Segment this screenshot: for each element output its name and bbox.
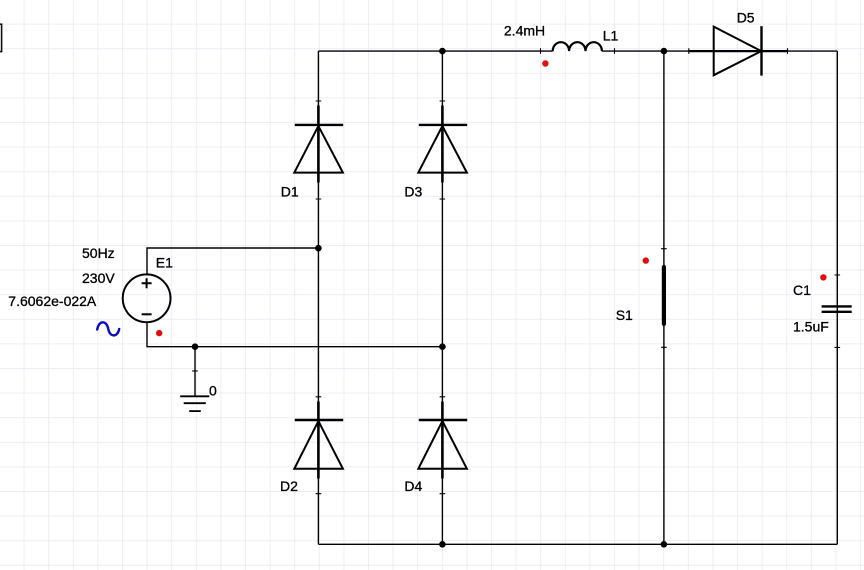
svg-text:7.6062e-022A: 7.6062e-022A <box>8 293 97 309</box>
svg-text:D3: D3 <box>404 184 422 200</box>
wire switch column <box>663 51 665 544</box>
node junction bottom D4 <box>439 541 446 548</box>
wire middle bridge column <box>441 51 443 544</box>
ground <box>180 371 209 411</box>
node junction E1 bottom <box>439 343 446 350</box>
voltage source E1 <box>123 274 171 322</box>
svg-text:50Hz: 50Hz <box>82 245 115 261</box>
svg-text:D4: D4 <box>404 478 422 494</box>
diode D4 <box>418 397 467 494</box>
probe dot near C1 <box>820 274 826 280</box>
svg-text:D1: D1 <box>281 184 299 200</box>
svg-text:1.5uF: 1.5uF <box>793 319 829 335</box>
diode D3 <box>418 101 467 199</box>
inductor L1 <box>541 42 615 54</box>
wire left bridge column <box>317 51 319 544</box>
switch S1 <box>661 249 667 348</box>
svg-text:0: 0 <box>209 383 217 399</box>
svg-text:S1: S1 <box>616 307 633 323</box>
node junction top D3 <box>439 48 446 55</box>
diode D5 <box>689 26 788 75</box>
svg-text:E1: E1 <box>156 254 173 270</box>
probe dot near S1 <box>643 257 649 263</box>
node junction bottom S1 <box>661 541 668 548</box>
probe dot near L1 <box>542 60 548 66</box>
svg-text:2.4mH: 2.4mH <box>504 22 545 38</box>
wire top bus left part <box>318 50 552 52</box>
svg-text:D5: D5 <box>737 9 755 25</box>
wire ground stem <box>194 347 196 397</box>
svg-text:C1: C1 <box>793 282 811 298</box>
svg-text:D2: D2 <box>280 478 298 494</box>
probe dot near E1 <box>156 330 162 336</box>
wire top bus right part <box>602 50 837 52</box>
node junction top S1 <box>661 48 668 55</box>
diode D2 <box>294 397 343 494</box>
diode D1 <box>294 101 343 199</box>
E1 ac sine mark <box>97 322 119 335</box>
wire bottom bus <box>318 543 837 545</box>
node junction ground tap <box>192 343 199 350</box>
node junction E1 top <box>315 245 322 252</box>
wire E1 top to bridge <box>147 248 318 275</box>
wire right column <box>836 51 838 544</box>
capacitor C1 <box>822 275 852 347</box>
svg-text:230V: 230V <box>82 270 115 286</box>
wire E1 bottom to bridge <box>147 322 442 347</box>
svg-text:L1: L1 <box>603 28 619 44</box>
